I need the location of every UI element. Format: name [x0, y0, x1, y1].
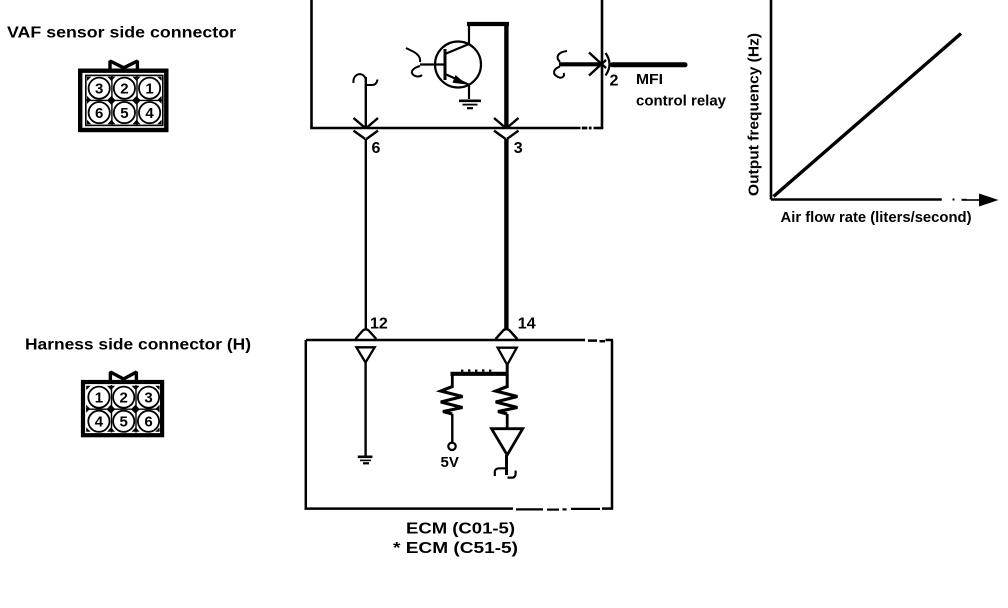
ground (ECM pin 12)	[358, 457, 373, 464]
wire pin 3 to ECM pin 14 (thick)	[504, 139, 508, 329]
svg-text:* ECM (C51-5): * ECM (C51-5)	[393, 540, 518, 557]
wire R2 to triangle	[506, 414, 509, 429]
wire to MFI control relay (left thick segment)	[559, 62, 600, 66]
ground (transistor emitter)	[459, 101, 481, 108]
svg-text:3: 3	[144, 390, 152, 407]
label: MFI control relay	[636, 72, 726, 109]
svg-text:1: 1	[95, 390, 103, 407]
ECM pin 14 terminal	[496, 329, 518, 365]
svg-text:4: 4	[145, 105, 154, 122]
connector VAF sensor side (pins 3 2 1 / 6 5 4)	[80, 61, 166, 130]
svg-text:2: 2	[610, 73, 619, 90]
5V terminal circle	[448, 443, 455, 450]
svg-text:ECM (C01-5): ECM (C01-5)	[406, 521, 515, 538]
connector harness side H (pins 1 2 3 / 4 5 6)	[83, 372, 162, 435]
svg-text:6: 6	[95, 105, 103, 122]
svg-text:5V: 5V	[441, 454, 459, 471]
wire break squiggle (relay feed)	[554, 51, 567, 78]
triangle (to internal circuit)	[492, 429, 523, 455]
connector pin 6 (in-line at box edge)	[354, 118, 379, 139]
svg-text:Harness side connector (H): Harness side connector (H)	[25, 337, 251, 354]
svg-text:14: 14	[518, 316, 536, 333]
svg-text:6: 6	[144, 414, 152, 431]
wire pin 14 node: vertical stub, thick horizontal tee, left corner	[451, 365, 509, 388]
resistor R2	[496, 387, 518, 415]
wire MFI relay side (right thick segment)	[613, 62, 686, 67]
graph response line	[774, 34, 962, 197]
svg-text:3: 3	[514, 140, 523, 157]
svg-text:3: 3	[95, 81, 103, 98]
graph Y axis	[770, 0, 773, 200]
wire pin 6 to ECM pin 12	[365, 139, 367, 329]
thick wire: collector up and over to pin 3	[467, 22, 509, 128]
svg-text:2: 2	[120, 81, 128, 98]
wire pin 12 to ground	[364, 363, 366, 457]
dotted texture on node wire	[461, 369, 491, 371]
svg-text:5: 5	[120, 105, 128, 122]
svg-text:Output frequency (Hz): Output frequency (Hz)	[746, 33, 763, 196]
wire break squiggle (pin 6 feed hook)	[353, 74, 377, 85]
resistor R1 (pull-up to 5V)	[441, 387, 463, 415]
ECM pin 12 terminal	[356, 329, 377, 362]
svg-text:12: 12	[370, 316, 388, 333]
wire pin 6 inside sensor box	[365, 77, 367, 128]
svg-text:control relay: control relay	[636, 93, 726, 109]
transistor Q1	[420, 25, 481, 99]
wire R1 to 5V terminal	[451, 414, 453, 442]
wire break squiggle (transistor base)	[406, 48, 422, 77]
svg-text:MFI: MFI	[636, 72, 663, 88]
svg-text:5: 5	[120, 414, 128, 431]
VAF sensor box	[310, 0, 603, 128]
svg-text:4: 4	[95, 414, 104, 431]
svg-text:1: 1	[145, 81, 153, 98]
svg-text:Air flow rate (liters/second): Air flow rate (liters/second)	[781, 209, 972, 226]
squiggle below triangle	[495, 468, 516, 477]
wire stub below triangle	[505, 455, 508, 475]
ECM box	[305, 340, 614, 510]
graph X axis with arrow	[771, 194, 999, 207]
connector pin 2 arrow (male/female at box edge)	[589, 53, 610, 76]
svg-text:2: 2	[120, 390, 128, 407]
svg-text:VAF sensor side connector: VAF sensor side connector	[7, 24, 236, 41]
svg-text:6: 6	[372, 140, 381, 157]
connector pin 3 (in-line at box edge)	[494, 118, 519, 139]
